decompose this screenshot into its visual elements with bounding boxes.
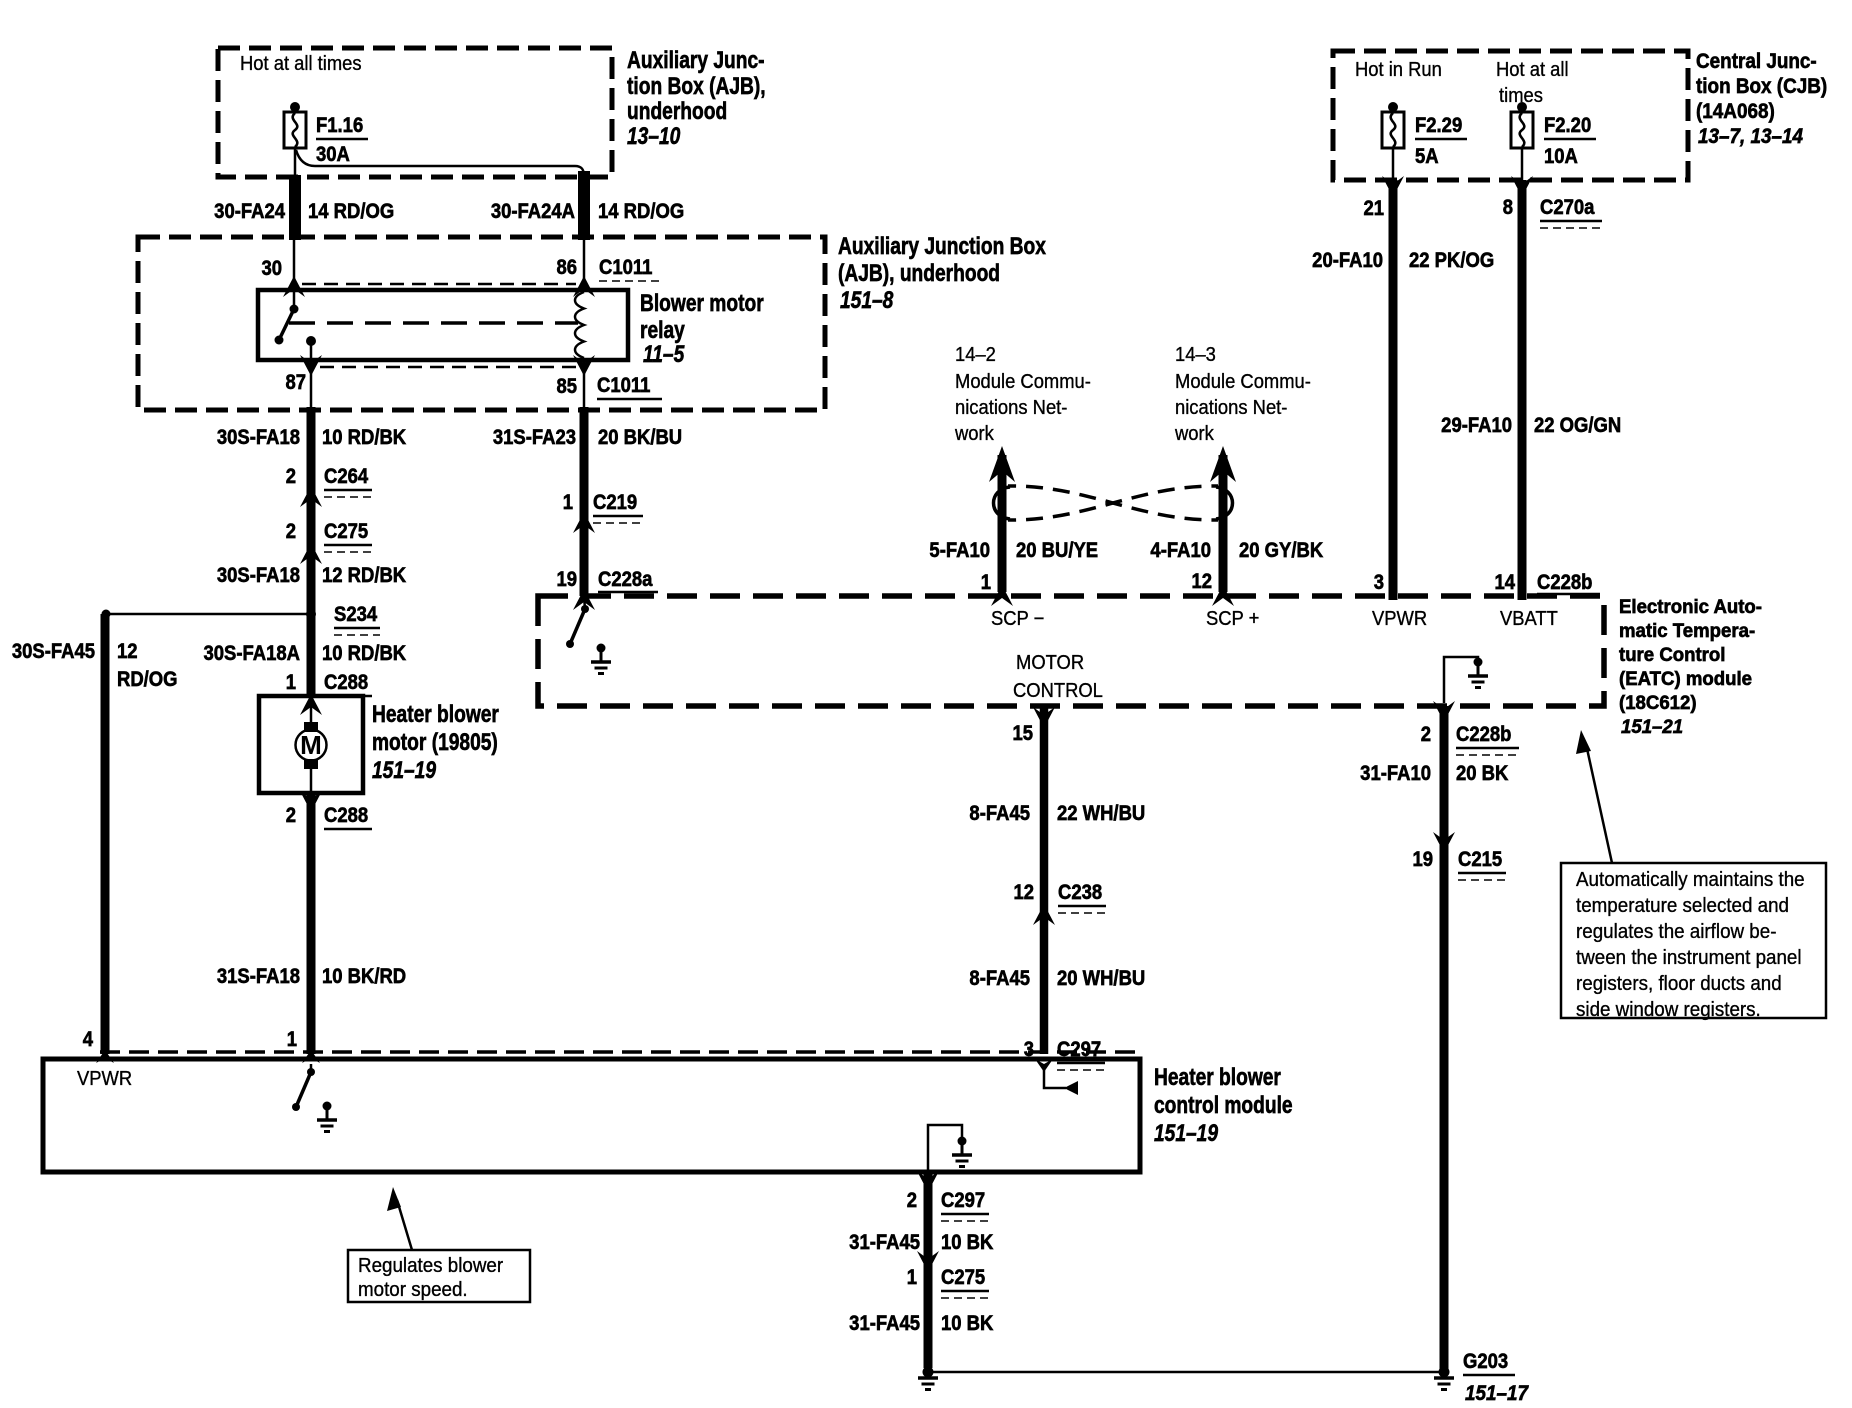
svg-text:1: 1 (287, 1028, 297, 1051)
svg-text:22 PK/OG: 22 PK/OG (1409, 249, 1494, 272)
svg-text:(14A068): (14A068) (1696, 100, 1775, 123)
svg-text:Heater blower: Heater blower (372, 700, 499, 728)
svg-text:151–19: 151–19 (1154, 1119, 1218, 1147)
svg-text:C288: C288 (324, 804, 368, 827)
svg-text:work: work (954, 423, 994, 445)
svg-text:2: 2 (1421, 723, 1431, 746)
svg-text:side window registers.: side window registers. (1576, 998, 1761, 1021)
svg-text:10 RD/BK: 10 RD/BK (322, 426, 407, 449)
svg-text:C297: C297 (1057, 1038, 1101, 1061)
svg-text:31-FA45: 31-FA45 (849, 1312, 920, 1335)
svg-text:C228b: C228b (1537, 571, 1592, 594)
svg-text:(18C612): (18C612) (1619, 692, 1697, 713)
svg-text:M: M (300, 730, 322, 760)
svg-text:G203: G203 (1463, 1350, 1508, 1373)
svg-text:31-FA10: 31-FA10 (1360, 762, 1431, 785)
svg-text:underhood: underhood (627, 97, 727, 125)
svg-text:30-FA24: 30-FA24 (214, 200, 285, 223)
svg-text:31S-FA18: 31S-FA18 (217, 965, 300, 988)
svg-text:C264: C264 (324, 465, 368, 488)
svg-text:control module: control module (1154, 1091, 1293, 1119)
svg-text:8-FA45: 8-FA45 (969, 802, 1030, 825)
svg-text:C228a: C228a (598, 568, 653, 591)
svg-text:87: 87 (285, 371, 306, 394)
svg-text:Auxiliary Junc-: Auxiliary Junc- (627, 46, 765, 74)
svg-text:registers, floor ducts and: registers, floor ducts and (1576, 972, 1782, 995)
svg-text:Regulates blower: Regulates blower (358, 1254, 504, 1277)
svg-text:1: 1 (981, 571, 991, 594)
svg-text:10A: 10A (1544, 145, 1578, 168)
svg-text:Electronic Auto-: Electronic Auto- (1619, 596, 1762, 617)
svg-text:Blower motor: Blower motor (640, 289, 764, 317)
svg-text:151–8: 151–8 (840, 286, 894, 314)
svg-text:Module Commu-: Module Commu- (1175, 371, 1311, 393)
svg-text:12 RD/BK: 12 RD/BK (322, 564, 407, 587)
svg-text:C275: C275 (324, 520, 368, 543)
svg-text:motor (19805): motor (19805) (372, 728, 498, 756)
svg-text:151–17: 151–17 (1465, 1382, 1529, 1405)
svg-text:20 BK: 20 BK (1456, 762, 1509, 785)
svg-text:1: 1 (907, 1266, 917, 1289)
svg-text:F2.29: F2.29 (1415, 114, 1462, 137)
svg-text:C219: C219 (593, 491, 637, 514)
svg-text:15: 15 (1012, 722, 1033, 745)
svg-text:12: 12 (1191, 570, 1212, 593)
svg-text:CONTROL: CONTROL (1013, 680, 1103, 702)
svg-text:VBATT: VBATT (1500, 608, 1558, 630)
svg-text:30S-FA18A: 30S-FA18A (204, 642, 300, 665)
svg-text:VPWR: VPWR (1372, 608, 1427, 630)
svg-text:14 RD/OG: 14 RD/OG (598, 200, 684, 223)
svg-text:10 BK/RD: 10 BK/RD (322, 965, 406, 988)
svg-text:20 BK/BU: 20 BK/BU (598, 426, 682, 449)
svg-text:5-FA10: 5-FA10 (929, 539, 990, 562)
svg-text:13–7, 13–14: 13–7, 13–14 (1698, 125, 1803, 148)
svg-text:21: 21 (1363, 197, 1384, 220)
svg-text:14: 14 (1494, 571, 1515, 594)
svg-text:10 RD/BK: 10 RD/BK (322, 642, 407, 665)
svg-text:SCP +: SCP + (1206, 608, 1259, 630)
svg-text:C270a: C270a (1540, 196, 1595, 219)
svg-text:20 WH/BU: 20 WH/BU (1057, 967, 1145, 990)
svg-text:tion Box (AJB),: tion Box (AJB), (627, 72, 766, 100)
svg-text:Central Junc-: Central Junc- (1696, 50, 1817, 73)
svg-text:14–3: 14–3 (1175, 344, 1216, 366)
svg-text:matic Tempera-: matic Tempera- (1619, 620, 1755, 641)
svg-text:Heater blower: Heater blower (1154, 1063, 1281, 1091)
svg-text:Hot at all times: Hot at all times (240, 53, 362, 75)
svg-text:2: 2 (286, 520, 296, 543)
svg-text:14 RD/OG: 14 RD/OG (308, 200, 394, 223)
svg-text:20-FA10: 20-FA10 (1312, 249, 1383, 272)
svg-text:temperature selected and: temperature selected and (1576, 894, 1789, 917)
svg-text:151–21: 151–21 (1621, 716, 1683, 737)
svg-text:3: 3 (1024, 1038, 1034, 1061)
svg-text:19: 19 (556, 568, 577, 591)
svg-text:VPWR: VPWR (77, 1068, 132, 1090)
svg-text:31-FA45: 31-FA45 (849, 1231, 920, 1254)
svg-text:22 OG/GN: 22 OG/GN (1534, 414, 1621, 437)
svg-text:nications Net-: nications Net- (1175, 397, 1287, 419)
svg-text:C238: C238 (1058, 881, 1102, 904)
svg-text:4-FA10: 4-FA10 (1150, 539, 1211, 562)
svg-text:30S-FA18: 30S-FA18 (217, 564, 300, 587)
svg-text:30-FA24A: 30-FA24A (491, 200, 575, 223)
svg-text:regulates the airflow be-: regulates the airflow be- (1576, 920, 1776, 943)
svg-text:times: times (1499, 85, 1543, 107)
svg-text:C215: C215 (1458, 848, 1502, 871)
svg-text:S234: S234 (334, 603, 377, 626)
svg-text:10 BK: 10 BK (941, 1231, 994, 1254)
svg-text:12: 12 (1013, 881, 1034, 904)
svg-text:(AJB), underhood: (AJB), underhood (838, 259, 1000, 287)
svg-text:85: 85 (556, 375, 577, 398)
svg-text:22 WH/BU: 22 WH/BU (1057, 802, 1145, 825)
svg-text:1: 1 (286, 671, 296, 694)
svg-text:C288: C288 (324, 671, 368, 694)
svg-text:19: 19 (1412, 848, 1433, 871)
svg-text:C1011: C1011 (599, 256, 652, 279)
svg-text:29-FA10: 29-FA10 (1441, 414, 1512, 437)
svg-text:11–5: 11–5 (643, 340, 685, 368)
svg-text:work: work (1174, 423, 1214, 445)
svg-text:C1011: C1011 (597, 374, 650, 397)
svg-text:4: 4 (83, 1028, 93, 1051)
svg-text:14–2: 14–2 (955, 344, 996, 366)
svg-text:motor speed.: motor speed. (358, 1278, 468, 1301)
svg-text:tween the instrument panel: tween the instrument panel (1576, 946, 1802, 969)
svg-text:Hot at all: Hot at all (1496, 59, 1569, 81)
svg-text:20 GY/BK: 20 GY/BK (1239, 539, 1324, 562)
svg-text:ture Control: ture Control (1619, 644, 1725, 665)
svg-text:10 BK: 10 BK (941, 1312, 994, 1335)
svg-text:30S-FA18: 30S-FA18 (217, 426, 300, 449)
svg-text:86: 86 (556, 256, 577, 279)
svg-text:8: 8 (1503, 196, 1513, 219)
svg-text:20 BU/YE: 20 BU/YE (1016, 539, 1098, 562)
svg-text:F1.16: F1.16 (316, 114, 363, 137)
svg-text:1: 1 (563, 491, 573, 514)
svg-text:tion Box (CJB): tion Box (CJB) (1696, 75, 1827, 98)
svg-text:Module Commu-: Module Commu- (955, 371, 1091, 393)
svg-text:Hot in Run: Hot in Run (1355, 59, 1442, 81)
svg-text:Automatically maintains the: Automatically maintains the (1576, 868, 1805, 891)
svg-text:C297: C297 (941, 1189, 985, 1212)
svg-text:(EATC) module: (EATC) module (1619, 668, 1752, 689)
svg-text:C275: C275 (941, 1266, 985, 1289)
svg-text:nications Net-: nications Net- (955, 397, 1067, 419)
svg-text:RD/OG: RD/OG (117, 668, 178, 691)
svg-text:12: 12 (117, 640, 138, 663)
svg-text:8-FA45: 8-FA45 (969, 967, 1030, 990)
svg-text:13–10: 13–10 (627, 122, 680, 150)
svg-text:5A: 5A (1415, 145, 1439, 168)
svg-text:2: 2 (907, 1189, 917, 1212)
svg-text:Auxiliary Junction Box: Auxiliary Junction Box (838, 232, 1046, 260)
svg-text:3: 3 (1374, 571, 1384, 594)
svg-text:2: 2 (286, 465, 296, 488)
svg-text:2: 2 (286, 804, 296, 827)
svg-text:30S-FA45: 30S-FA45 (12, 640, 95, 663)
svg-text:30A: 30A (316, 143, 350, 166)
svg-text:30: 30 (261, 257, 282, 280)
svg-text:151–19: 151–19 (372, 756, 436, 784)
svg-text:C228b: C228b (1456, 723, 1511, 746)
svg-text:SCP −: SCP − (991, 608, 1044, 630)
svg-text:MOTOR: MOTOR (1016, 652, 1084, 674)
svg-text:F2.20: F2.20 (1544, 114, 1591, 137)
svg-text:31S-FA23: 31S-FA23 (493, 426, 576, 449)
